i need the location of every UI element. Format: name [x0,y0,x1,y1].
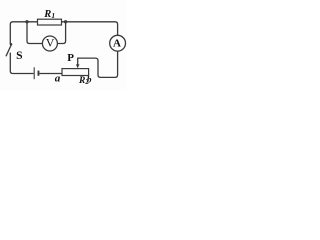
svg-text:A: A [113,38,121,50]
svg-text:R1: R1 [43,9,55,20]
svg-text:a: a [55,73,61,85]
svg-text:b: b [87,76,92,86]
svg-text:P: P [67,52,74,64]
svg-text:V: V [46,36,55,50]
svg-text:S: S [16,49,22,62]
